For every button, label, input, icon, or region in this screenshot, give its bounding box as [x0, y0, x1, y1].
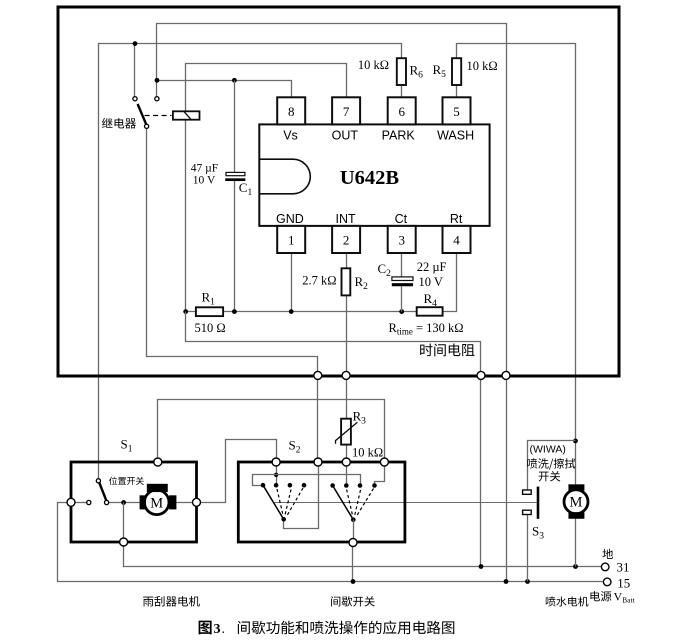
label IC port Rt: [450, 212, 463, 226]
svg-text:10 V: 10 V: [419, 275, 443, 289]
resistor R1 510 ohm body: [196, 307, 223, 316]
label IC port WASH: [437, 129, 474, 143]
node junction Vs wire / C1: [232, 78, 237, 83]
wire Vbatt right vertical below boundary feedthrough: [506, 379, 508, 581]
pin 8 box: [277, 97, 305, 124]
svg-text:10 kΩ: 10 kΩ: [358, 58, 389, 72]
node S1 left terminal: [67, 498, 75, 506]
label R1: [202, 290, 216, 308]
pin 2 box: [332, 226, 360, 253]
label IC port PARK: [382, 129, 416, 143]
wire C1 bottom lead to ground bus: [234, 181, 236, 312]
contact relay common: [145, 124, 149, 128]
node junction S1 motor-left / bottom drop: [121, 500, 126, 505]
svg-text:1: 1: [288, 232, 295, 247]
label U642B: [340, 167, 400, 189]
label 电源 VBatt (supply): [590, 590, 635, 605]
switch box S1 (wiper motor unit): [71, 462, 197, 542]
label 10 V (C2): [419, 275, 443, 289]
wire S3 bottom lead to 15 bus: [527, 515, 529, 582]
svg-text:510 Ω: 510 Ω: [195, 321, 226, 335]
switch box S2 (interval switch): [238, 462, 405, 542]
node boundary feedthrough INT: [342, 371, 350, 379]
svg-text:10 V: 10 V: [193, 175, 216, 187]
label 间歇开关 (interval switch): [331, 596, 375, 606]
wire WASH net: R5 top, across, down right side to washer circuit: [457, 44, 576, 485]
label C1: [239, 180, 253, 198]
label 47 µF: [191, 162, 218, 174]
label M (wiper motor): [150, 495, 163, 511]
motor M1 left brush: [140, 495, 146, 509]
svg-text:2.7 kΩ: 2.7 kΩ: [302, 273, 336, 287]
wire 15 bus: S1 left terminal down and across to terminal 15: [58, 503, 604, 582]
svg-text:8: 8: [288, 104, 295, 119]
label IC port GND: [276, 212, 304, 226]
svg-text:5: 5: [453, 104, 460, 119]
label S2: [289, 438, 301, 456]
label 继电器 (relay): [102, 118, 136, 129]
wire Vs net: relay NO junction to pin 8: [157, 81, 292, 98]
node rotary A common: [281, 517, 286, 522]
label C2: [378, 261, 392, 279]
resistor R5 body: [452, 58, 461, 85]
node junction 31 bus / washer motor: [573, 564, 578, 569]
label (WIWA): [530, 444, 566, 456]
svg-text:M: M: [150, 495, 163, 511]
svg-text:2: 2: [343, 232, 350, 247]
svg-text:GND: GND: [276, 212, 304, 226]
resistor R3 potentiometer body: [341, 419, 351, 445]
label M (washer motor): [570, 495, 583, 511]
contact relay NO: [155, 97, 159, 101]
wire rotary A common return up to S2 terminal 2: [284, 466, 319, 528]
node junction S2 terminal-1 drop / contact row wire: [274, 473, 278, 477]
wire S2 terminal 1 drop to rotary A contact 2: [276, 466, 278, 485]
wire motor right brush to S1 right terminal: [176, 502, 192, 504]
motor M2 top brush: [569, 484, 585, 490]
label 喷水电机 (washer motor): [546, 596, 589, 606]
node rotary A contact 4: [302, 483, 307, 488]
wire S3 branch from WASH junction: [528, 441, 576, 490]
node S2 terminal 1: [272, 458, 280, 466]
control-unit boundary box (thick): [58, 7, 619, 376]
node junction 15 bus / Vbatt vertical: [504, 579, 509, 584]
node terminal 31: [601, 563, 609, 571]
contact position-switch common: [96, 479, 100, 483]
wire relay NC contact to PARK rail: [134, 44, 136, 97]
svg-text:15: 15: [617, 575, 630, 590]
wire mechanical link S2 arms to S3 button: [273, 502, 537, 504]
pin 3 box: [388, 226, 416, 253]
wire INT net: pin 2 down through R2, boundary, R3 to S2: [346, 253, 348, 458]
switch rotary A wiper arm: [263, 485, 284, 519]
pin 4 box: [443, 226, 471, 253]
wire C2 top lead from pin 3: [401, 253, 403, 277]
switch rotary B alternate positions (dashed): [347, 489, 374, 518]
pin 7 box: [332, 97, 360, 124]
svg-text:22 µF: 22 µF: [417, 260, 447, 274]
label 10 V (C1): [193, 175, 216, 187]
label R6: [410, 63, 424, 81]
node rotary B contact 1: [330, 483, 335, 488]
wire S2 terminal 4 jog to rotary B contact 4: [375, 466, 385, 485]
label 喷洗/擦拭 (wash/wipe): [527, 458, 575, 469]
wire relay common down and right to boundary feedthrough: [147, 128, 318, 371]
wire S2 contact row: rotary A contact 1 across to rotary B contact 3: [253, 475, 361, 486]
wire C1 top lead: [234, 80, 236, 172]
op-amp U1 IC body U642B: [259, 124, 489, 225]
wire relay common below boundary to S2 terminal 2: [317, 379, 319, 458]
label 地 (ground): [602, 549, 613, 559]
label 雨刮器电机 (wiper motor): [143, 596, 200, 607]
node junction WASH wire / S3 branch: [573, 439, 578, 444]
svg-text:7: 7: [343, 104, 350, 119]
node S2 bottom terminal: [349, 539, 357, 547]
node boundary feedthrough Vbatt: [502, 371, 510, 379]
svg-text:.: .: [222, 622, 226, 637]
label IC port Ct: [395, 212, 408, 226]
relay coil K1: [173, 111, 200, 119]
svg-text:3: 3: [214, 622, 221, 637]
node rotary B contact 3: [358, 483, 363, 488]
resistor R6 body: [397, 58, 406, 85]
wire 31 bus: S1 bottom terminal down and across to terminal 31: [124, 546, 602, 567]
svg-text:U642B: U642B: [340, 167, 400, 189]
label 10 kΩ below R3: [352, 445, 383, 459]
label 位置开关 (position switch): [109, 477, 144, 485]
node boundary feedthrough timing ground: [477, 371, 485, 379]
resistor R4 body: [417, 307, 443, 316]
node junction PARK rail / relay NC: [133, 41, 138, 46]
switch S3 top contact plate: [523, 490, 532, 494]
contact relay NC: [133, 97, 137, 101]
wire position-switch arm contact to motor left brush: [109, 502, 140, 504]
wire relay coil bottom to R1 left junction: [185, 120, 187, 312]
resistor R2 2.7k body: [342, 268, 351, 295]
caption 图3. application circuit: [199, 621, 455, 637]
contact position-switch arm end: [105, 500, 109, 504]
svg-text:INT: INT: [336, 212, 357, 226]
svg-text:Rt: Rt: [450, 212, 463, 226]
pin 1 box: [277, 226, 305, 253]
wire Vbatt top rail (relay NO contact up, across, down through boundary): [157, 24, 507, 372]
label 10 kΩ right of R5: [467, 59, 498, 73]
capacitor C1 top plate: [226, 172, 245, 175]
motor M1 right brush: [169, 495, 176, 509]
svg-text:10 kΩ: 10 kΩ: [352, 445, 383, 459]
capacitor C2 bottom plate: [392, 283, 413, 286]
wire PARK net: position-switch common up left side, across top, down to R6: [99, 44, 402, 479]
node S1 top terminal: [154, 458, 162, 466]
node junction ground bus / C1: [232, 309, 237, 314]
label IC port INT: [336, 212, 357, 226]
node S1 bottom terminal: [120, 538, 128, 546]
svg-text:(WIWA): (WIWA): [530, 444, 566, 456]
switch rotary B wiper arm: [333, 486, 354, 520]
motor M2 bottom brush: [569, 512, 585, 518]
wire timing ground below boundary to 31 bus: [480, 379, 482, 566]
label R2: [355, 274, 369, 292]
svg-text:WASH: WASH: [437, 129, 474, 143]
label R4: [424, 291, 438, 309]
label S1: [121, 437, 133, 455]
switch position-switch arm: [99, 483, 106, 501]
switch S3 push-button bar: [537, 487, 540, 519]
svg-text:PARK: PARK: [382, 129, 416, 143]
motor M2 washer: housing: [564, 490, 588, 514]
node junction ground bus / coil-R1: [183, 309, 188, 314]
svg-text:10 kΩ: 10 kΩ: [467, 59, 498, 73]
svg-text:Ct: Ct: [395, 212, 408, 226]
label 2.7 kΩ: [302, 273, 336, 287]
switch S3 bottom contact plate: [523, 510, 532, 514]
switch rotary A alternate positions (dashed): [277, 488, 303, 517]
wire R5 bottom lead to pin 5: [456, 85, 458, 97]
label 15: [617, 575, 630, 590]
capacitor C1 bottom plate: [225, 178, 245, 181]
node S2 terminal 2: [314, 458, 322, 466]
node S2 terminal 4: [380, 458, 388, 466]
label 22 µF: [417, 260, 447, 274]
node junction ground bus / pin 1: [289, 309, 294, 314]
wire S1 top feed across to S2 terminal 4: [158, 400, 385, 459]
wire R6 bottom lead to pin 6: [401, 85, 403, 97]
label 时间电阻 (timing resistor): [420, 343, 474, 356]
wire S1 right terminal link to S2 terminal 1: [201, 440, 277, 503]
node junction 31 bus / timing ground: [479, 564, 484, 569]
node rotary B contact 2: [344, 483, 349, 488]
label 31: [617, 559, 630, 574]
contact position-switch open: [87, 500, 91, 504]
label 510 Ω: [195, 321, 226, 335]
motor M1 top brush: [147, 484, 168, 492]
label Rtime = 130 kΩ: [389, 321, 464, 337]
node S2 terminal 3: [342, 458, 350, 466]
label R3: [353, 409, 367, 427]
wire rotary B common to S2 bottom terminal: [353, 520, 355, 539]
svg-text:31: 31: [617, 559, 630, 574]
svg-text:47 µF: 47 µF: [191, 162, 218, 174]
node S1 right terminal: [193, 498, 201, 506]
wire S1 left terminal to position-switch open contact: [75, 502, 87, 504]
svg-text:OUT: OUT: [332, 129, 359, 143]
node rotary A contact 2: [274, 483, 279, 488]
label IC port Vs: [283, 129, 298, 143]
wire C2 bottom lead: [401, 286, 403, 311]
wire ground bus under IC: R1 through R4 up to pin 4: [186, 253, 457, 312]
pin 6 box: [388, 97, 416, 124]
motor M1 wiper: housing: [144, 490, 169, 515]
wire S2 common to 15 bus: [352, 547, 354, 582]
svg-text:4: 4: [453, 232, 460, 247]
resistor R3 adjustment arrow: [336, 422, 358, 444]
relay switch arm: [138, 104, 147, 124]
pin 5 box: [443, 97, 471, 124]
wire S2 terminal 3 drop to rotary B contact 2: [346, 466, 348, 485]
label R5: [433, 62, 447, 80]
node rotary B contact 4: [372, 483, 377, 488]
node rotary A contact 3: [288, 483, 293, 488]
node junction 15 bus / S2 common: [351, 579, 356, 584]
label IC port OUT: [332, 129, 359, 143]
wire relay actuation (dashed): [145, 115, 172, 117]
node junction Vs wire / relay NO vertical: [155, 78, 160, 83]
svg-text:M: M: [570, 495, 583, 511]
label 10 kΩ left of R6: [358, 58, 389, 72]
node rotary B common: [351, 517, 356, 522]
node junction ground bus / C2 / R4: [399, 309, 404, 314]
svg-text:6: 6: [398, 104, 405, 119]
wire timing ground to boundary feedthrough: [186, 312, 481, 372]
node rotary A contact 1: [261, 483, 266, 488]
wire relay coil to OUT pin 7: [186, 64, 347, 112]
label S3: [532, 524, 544, 542]
node boundary feedthrough relay-common: [314, 371, 322, 379]
label 开关 (switch): [539, 471, 561, 481]
wire pin 1 GND lead: [291, 253, 293, 312]
wire S1 bottom drop to bottom terminal: [123, 503, 125, 539]
node junction 15 bus / S3 bottom: [525, 579, 530, 584]
svg-text:3: 3: [398, 232, 405, 247]
svg-text:Vs: Vs: [283, 129, 298, 143]
capacitor C2 top plate: [392, 277, 413, 281]
node terminal 15: [603, 578, 611, 586]
wire washer motor bottom lead to 31 bus: [575, 519, 577, 567]
IC notch: [259, 159, 310, 194]
